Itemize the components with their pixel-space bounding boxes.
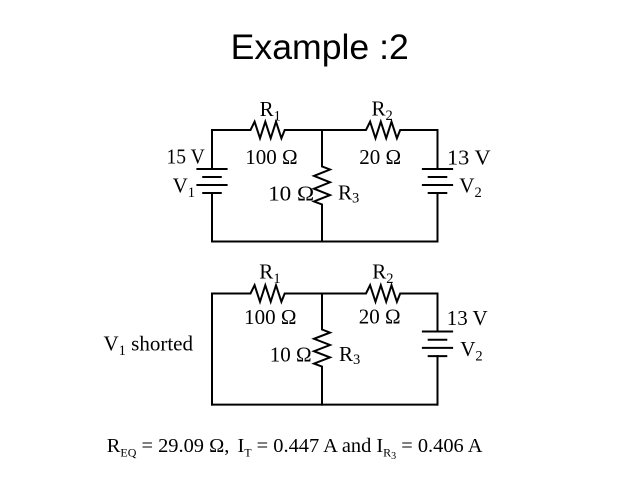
- svg-text:V1 shorted: V1 shorted: [104, 331, 194, 359]
- svg-text:20 Ω: 20 Ω: [359, 305, 401, 329]
- svg-text:15 V: 15 V: [167, 144, 205, 168]
- svg-text:100 Ω: 100 Ω: [245, 145, 297, 169]
- svg-text:Example :2: Example :2: [231, 28, 409, 67]
- svg-text:13 V: 13 V: [447, 306, 488, 330]
- svg-text:20 Ω: 20 Ω: [359, 145, 401, 169]
- svg-text:100 Ω: 100 Ω: [244, 305, 296, 329]
- svg-text:13 V: 13 V: [447, 145, 491, 169]
- svg-text:10 Ω: 10 Ω: [268, 181, 314, 205]
- svg-text:10 Ω: 10 Ω: [270, 343, 312, 367]
